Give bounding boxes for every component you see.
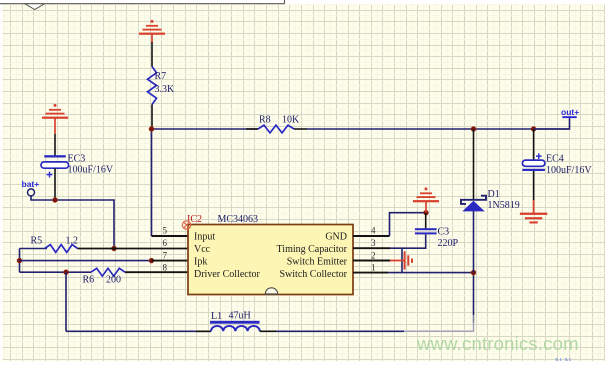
ground symbol below EC4 xyxy=(520,213,547,224)
wire left bus vertical xyxy=(19,249,21,273)
resistor R7 xyxy=(148,67,157,105)
power symbol VCC2 (above EC3) xyxy=(42,104,68,134)
junction switch collector node xyxy=(471,270,476,275)
wire R7 bottom lead xyxy=(151,105,153,130)
junction rail/EC4 xyxy=(531,127,536,132)
IC IC2 MC34063 body xyxy=(188,225,353,295)
resistor R6 xyxy=(91,268,125,276)
svg-text:bat+: bat+ xyxy=(22,179,40,189)
port bat+ terminal circle xyxy=(28,189,35,196)
svg-text:Vcc: Vcc xyxy=(194,244,211,255)
wire R8 right lead xyxy=(294,128,307,130)
capacitor C3 xyxy=(415,228,437,234)
svg-text:10K: 10K xyxy=(282,115,300,126)
wire out+ stem xyxy=(534,118,570,130)
pin 7 stub xyxy=(152,260,189,262)
svg-text:47uH: 47uH xyxy=(229,311,251,322)
diode D1 (schottky) xyxy=(461,196,486,212)
wire switch collector vertical xyxy=(473,273,475,315)
svg-text:MC34063: MC34063 xyxy=(218,214,259,225)
wire R5 row left xyxy=(20,248,48,250)
ERC marker xyxy=(182,221,190,229)
wire R7 top lead xyxy=(151,42,153,67)
wire C3 top stem xyxy=(425,213,427,229)
svg-text:N.N: N.N xyxy=(555,357,572,362)
resistor R5 xyxy=(45,245,78,253)
wire C3 bottom stem to pin 3 xyxy=(390,234,426,248)
svg-text:1.2: 1.2 xyxy=(66,236,79,247)
junction GND net xyxy=(424,210,429,215)
wire top rail left segment xyxy=(152,128,259,130)
junction rail/D1 xyxy=(471,127,476,132)
wire top rail right segment xyxy=(307,128,570,130)
svg-text:D1: D1 xyxy=(488,189,500,200)
wire R6 row left xyxy=(20,271,92,273)
wire Ipk row (to pin 7) xyxy=(20,260,152,262)
wire pin 1 to D1 column xyxy=(388,272,474,274)
svg-text:EC3: EC3 xyxy=(68,154,86,165)
junction bat+/EC3 xyxy=(53,198,58,203)
junction left bus / Ipk row xyxy=(17,258,22,263)
svg-text:2: 2 xyxy=(371,250,376,260)
svg-text:5: 5 xyxy=(163,226,168,236)
wire GND net (pin4 up and over) xyxy=(390,213,427,236)
port out+ bar xyxy=(562,116,576,118)
wire bottom rail left xyxy=(66,330,211,332)
svg-text:Switch Emitter: Switch Emitter xyxy=(287,256,348,267)
wire R5 row right (to pin 6) xyxy=(78,248,188,250)
pin 4 stub xyxy=(353,235,390,237)
svg-text:www.cntronics.com: www.cntronics.com xyxy=(416,333,579,354)
wire EC3 top lead xyxy=(54,134,56,155)
wire EC4 ground stem xyxy=(533,200,535,213)
pin 1 stub xyxy=(353,272,388,274)
svg-text:R6: R6 xyxy=(83,275,95,286)
svg-text:L1: L1 xyxy=(211,311,222,322)
svg-text:200: 200 xyxy=(106,275,121,286)
svg-text:GND: GND xyxy=(325,232,347,243)
svg-text:1: 1 xyxy=(371,263,376,273)
junction bat+/R5 row xyxy=(112,246,117,251)
wire R6 row right (to pin 8) xyxy=(125,271,188,273)
capacitor EC4 xyxy=(522,153,545,171)
svg-text:Driver Collector: Driver Collector xyxy=(194,269,260,280)
wire EC3 bottom lead xyxy=(54,168,56,200)
wire bottom loop vertical left xyxy=(65,272,67,331)
svg-text:1N5819: 1N5819 xyxy=(488,200,520,211)
wire D1 anode lead xyxy=(473,211,475,273)
svg-text:R7: R7 xyxy=(155,71,167,82)
inductor L1 coil xyxy=(211,326,260,331)
wire EC4 bottom lead xyxy=(533,171,535,200)
svg-text:4: 4 xyxy=(371,226,376,236)
svg-text:R8: R8 xyxy=(259,115,271,126)
svg-text:EC4: EC4 xyxy=(546,153,564,164)
svg-text:out+: out+ xyxy=(561,107,579,117)
wire bat+ rail xyxy=(31,196,114,249)
svg-text:220P: 220P xyxy=(438,238,459,249)
svg-text:3: 3 xyxy=(371,238,376,248)
svg-text:100uF/16V: 100uF/16V xyxy=(68,165,114,176)
svg-text:3.3K: 3.3K xyxy=(155,84,176,95)
junction R6 row / bottom loop xyxy=(64,270,69,275)
junction Ipk row xyxy=(149,258,154,263)
wire D1 cathode lead xyxy=(473,129,475,200)
wire bottom rail faded under watermark xyxy=(404,322,474,331)
svg-text:R5: R5 xyxy=(31,236,43,247)
wire bottom rail right xyxy=(276,330,404,332)
pin 5 stub xyxy=(152,235,189,237)
wire L1 right lead xyxy=(260,330,276,332)
svg-text:IC2: IC2 xyxy=(187,214,202,225)
wire vertical at ground (x=402) xyxy=(401,248,403,272)
svg-text:7: 7 xyxy=(163,250,168,260)
svg-text:C3: C3 xyxy=(438,227,450,238)
svg-text:Switch Collector: Switch Collector xyxy=(280,269,348,280)
wire L1 left lead xyxy=(196,330,211,332)
svg-text:Input: Input xyxy=(194,232,215,243)
pin 3 stub xyxy=(353,247,390,249)
capacitor EC3 xyxy=(41,155,69,177)
wire R8 left lead xyxy=(246,128,258,130)
svg-text:8: 8 xyxy=(163,263,168,273)
pin 2 stub xyxy=(353,260,390,262)
svg-text:Timing Capacitor: Timing Capacitor xyxy=(277,244,348,255)
inductor L1 bar xyxy=(210,321,260,324)
svg-text:6: 6 xyxy=(163,238,168,248)
junction rail/R7 xyxy=(149,127,154,132)
power symbol VCC3 (above C3) xyxy=(413,187,439,212)
svg-text:Ipk: Ipk xyxy=(194,256,207,267)
resistor R8 xyxy=(258,125,294,133)
wire EC4 top lead xyxy=(533,129,535,160)
wire vertical from rail down to pin 5 xyxy=(151,129,153,236)
ground symbol (rotated) at pin 2 xyxy=(390,251,413,269)
svg-text:100uF/16V: 100uF/16V xyxy=(546,165,592,176)
power symbol VCC1 (top, above R7) xyxy=(139,20,165,43)
